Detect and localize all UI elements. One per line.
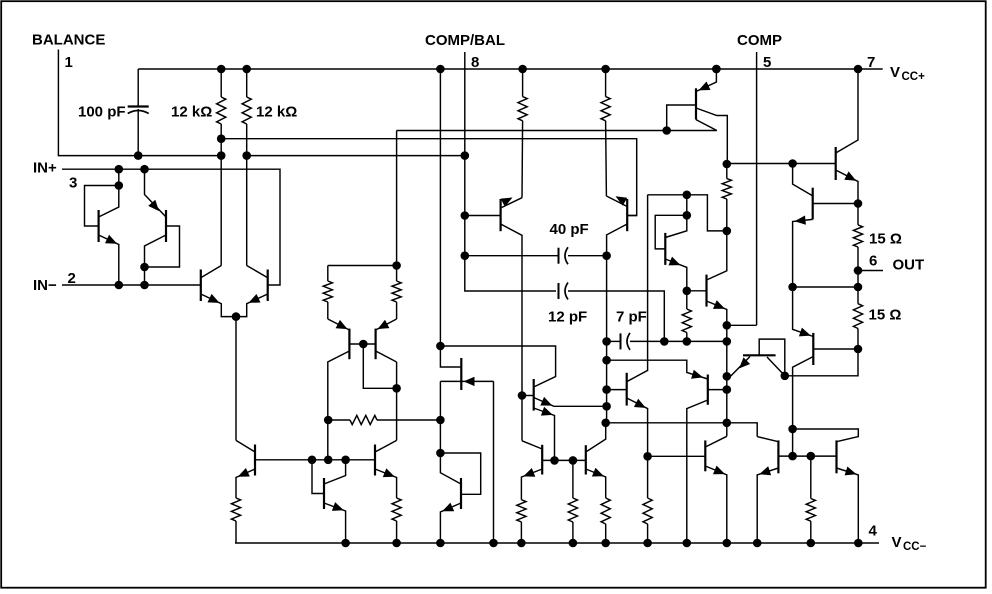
junction pin8 y255 bbox=[461, 251, 470, 260]
junction pin5 tie bbox=[723, 321, 732, 330]
resistor R6 (Q6m emitter) bbox=[392, 266, 401, 320]
svg-text:3: 3 bbox=[69, 175, 77, 192]
junction base bus 1 bbox=[308, 456, 317, 465]
resistor R9 (x=606) bbox=[601, 69, 610, 196]
transistor Q2 bar bbox=[165, 210, 167, 242]
junction Q20 emitter tap bbox=[643, 452, 652, 461]
junction R2 top bbox=[242, 65, 251, 74]
transistor Q18 bar bbox=[541, 445, 543, 475]
transistor Q26 emitter arrow bbox=[713, 466, 725, 475]
label VCC+ bbox=[890, 64, 925, 83]
transistor Q20 emitter bbox=[627, 398, 648, 498]
transistor Q8 bar bbox=[705, 275, 707, 307]
junction Q7 emitter base-line bbox=[683, 287, 692, 296]
junction base bus 2 bbox=[324, 456, 333, 465]
svg-text:CC−: CC− bbox=[903, 541, 927, 553]
resistor R4 (Q12 emitter) bbox=[392, 498, 401, 543]
mirror top wire bbox=[328, 265, 397, 267]
transistor Q18 collector bbox=[522, 441, 542, 449]
junction base bus 3 bbox=[341, 456, 350, 465]
junction bus e2 bbox=[550, 456, 559, 465]
svg-text:7: 7 bbox=[867, 54, 875, 71]
svg-text:OUT: OUT bbox=[893, 257, 925, 274]
junction y360 left bbox=[602, 356, 611, 365]
transistor Q20 bar bbox=[626, 373, 628, 406]
transistor Q8 emitter arrow bbox=[713, 300, 725, 309]
transistor Q14 collector bbox=[501, 224, 522, 441]
wire y346 bbox=[440, 346, 555, 387]
pin 5 wire bbox=[727, 52, 757, 325]
transistor Q15s base bbox=[627, 215, 637, 217]
transistor Q15s emitter arrow bbox=[616, 196, 628, 206]
transistor Q27 base bus bbox=[778, 455, 836, 457]
junction x792 y429 bbox=[788, 425, 797, 434]
junction cap C1 bottom bbox=[134, 151, 143, 160]
svg-text:4: 4 bbox=[869, 523, 878, 540]
pin 8 wire bbox=[465, 52, 556, 291]
transistor Q15s collector bbox=[607, 224, 628, 423]
junction Q17 base-collector bbox=[436, 449, 445, 458]
transistor Q9 collector2 bbox=[696, 120, 717, 131]
transistor Q14 bar bbox=[500, 199, 502, 231]
svg-text:IN−: IN− bbox=[33, 277, 57, 294]
transistor Q12 bar bbox=[374, 445, 376, 476]
wire 40pF left bbox=[465, 255, 559, 257]
junction bus R11 bbox=[569, 456, 578, 465]
junction R9 top bbox=[601, 65, 610, 74]
resistor R10 bbox=[517, 500, 526, 543]
wire y130 (mirror to Q15 base) bbox=[397, 130, 717, 132]
wire y194 loop bbox=[648, 195, 727, 231]
svg-text:IN+: IN+ bbox=[33, 160, 57, 177]
wire Q13 emitter down bbox=[493, 381, 495, 543]
junction diff emitters bbox=[232, 312, 241, 321]
transistor Q5 bar bbox=[348, 329, 350, 360]
capacitor C3 12 pF bbox=[559, 283, 569, 300]
transistor Q23 collector bbox=[793, 164, 813, 196]
transistor Q20 collector bbox=[627, 195, 648, 382]
resistor R7 bbox=[350, 415, 377, 424]
transistor Q9 emitter arrow bbox=[699, 82, 711, 91]
label OUT bbox=[893, 257, 925, 274]
label pin 5 bbox=[763, 54, 771, 71]
label R2 12 k-ohm bbox=[256, 104, 297, 121]
junction R1 node y138 bbox=[217, 134, 226, 143]
capacitor C1 100 pF leads bbox=[137, 69, 139, 156]
junction mirror tie bbox=[392, 384, 401, 393]
svg-text:7 pF: 7 pF bbox=[616, 309, 647, 326]
transistor Q17 emitter arrow bbox=[442, 503, 454, 512]
transistor Q19 collector bbox=[586, 423, 606, 452]
junction Q2 base-collector bbox=[140, 263, 149, 272]
transistor Q4 emitter arrow bbox=[249, 294, 261, 303]
transistor Q23 bar bbox=[812, 188, 814, 220]
junction VCC- rail 6 bbox=[569, 539, 578, 548]
transistor Q12 emitter bbox=[375, 469, 397, 498]
label pin 2 bbox=[68, 270, 76, 287]
label IN+ bbox=[33, 160, 57, 177]
junction e1 bbox=[602, 402, 611, 411]
transistor Q24 emitter bbox=[793, 287, 814, 337]
svg-text:COMP: COMP bbox=[737, 32, 782, 49]
wire y163 bbox=[727, 163, 836, 165]
label COMP/BAL bbox=[425, 32, 505, 49]
transistor Q14 emitter bbox=[501, 198, 522, 208]
label 7 pF bbox=[616, 309, 647, 326]
junction x522 y395 bbox=[518, 391, 527, 400]
transistor Q6m bar bbox=[375, 329, 377, 360]
wire 7pF right bbox=[630, 340, 727, 342]
junction VCC- rail 7 bbox=[601, 539, 610, 548]
junction pin7 bbox=[854, 65, 863, 74]
transistor Q21 collector bbox=[687, 400, 708, 543]
transistor Q3 bar bbox=[200, 270, 202, 302]
label BALANCE bbox=[32, 32, 105, 49]
label 12 pF bbox=[548, 309, 587, 326]
transistor Q26 bar bbox=[704, 440, 706, 471]
transistor Q24 base bbox=[813, 348, 858, 350]
transistor Q23 base bbox=[813, 203, 858, 205]
transistor Q1 base loop bbox=[85, 186, 119, 227]
transistor Q25 emitter arrow bbox=[739, 357, 750, 368]
transistor Q2 base loop bbox=[145, 226, 180, 267]
transistor Q10 emitter arrow bbox=[238, 468, 250, 477]
transistor Q7 base loop bbox=[655, 215, 687, 249]
capacitor C1 100 pF plates bbox=[128, 107, 149, 114]
junction R7 left bbox=[324, 416, 333, 425]
transistor Q4 collector bbox=[247, 266, 268, 278]
transistor Q22 emitter arrow bbox=[844, 171, 856, 180]
svg-text:12 kΩ: 12 kΩ bbox=[171, 104, 212, 121]
transistor Q13 collector bbox=[440, 380, 459, 382]
svg-text:COMP/BAL: COMP/BAL bbox=[425, 32, 505, 49]
svg-text:6: 6 bbox=[869, 253, 877, 270]
junction VCC- rail 13 bbox=[854, 539, 863, 548]
transistor Q6m collector bbox=[376, 351, 397, 362]
junction 7pF line right bbox=[723, 337, 732, 346]
transistor Q1 bar bbox=[97, 210, 99, 242]
junction R15 top bbox=[723, 160, 732, 169]
transistor Q4 bar bbox=[267, 270, 269, 302]
resistor R16 15 ohm bbox=[853, 204, 862, 271]
junction VCC- rail 5 bbox=[517, 539, 526, 548]
transistor Q21 emitter arrow bbox=[691, 370, 703, 379]
transistor Q13 emitter bbox=[459, 380, 494, 382]
transistor Q1 emitter arrow bbox=[105, 235, 117, 244]
junction R1 node y155 bbox=[217, 151, 226, 160]
label 15 ohm lower bbox=[869, 307, 902, 324]
transistor Q2 emitter bbox=[145, 169, 167, 217]
svg-text:CC+: CC+ bbox=[902, 71, 926, 83]
junction mirror top bbox=[392, 261, 401, 270]
transistor Q17 bar bbox=[460, 478, 462, 509]
label 100 pF bbox=[78, 104, 126, 121]
resistor R3 (Q10 emitter) bbox=[231, 498, 240, 543]
junction x440 y346 bbox=[436, 342, 445, 351]
pin 6 OUT stub bbox=[858, 270, 883, 272]
junction Q23 base x858 bbox=[854, 199, 863, 208]
wire 12pF right bbox=[568, 291, 664, 341]
transistor Q16d emitter2 bbox=[534, 408, 555, 460]
junction VCC- rail 11 bbox=[753, 539, 762, 548]
svg-text:5: 5 bbox=[763, 54, 771, 71]
transistor Q26 collector bbox=[705, 436, 727, 447]
junction y423 x727 bbox=[723, 419, 732, 428]
junction VCC- rail 10 bbox=[723, 539, 732, 548]
transistor Q1 collector bbox=[99, 169, 119, 217]
junction VCC- rail 3 bbox=[436, 539, 445, 548]
transistor Q25 base loop bbox=[759, 339, 785, 376]
junction x440 top bbox=[436, 65, 445, 74]
resistor R13 bbox=[643, 498, 652, 543]
svg-text:8: 8 bbox=[471, 54, 479, 71]
junction Q27 base x792 bbox=[788, 452, 797, 461]
VCC+ rail (top) bbox=[138, 68, 883, 70]
transistor Q6m emitter arrow bbox=[378, 320, 390, 329]
label VCC- bbox=[892, 534, 927, 553]
transistor Q11 bar bbox=[323, 478, 325, 509]
junction 7pF line mid bbox=[683, 337, 692, 346]
wire node-A to Q6 base (y=138.7) bbox=[221, 139, 637, 216]
resistor R12 bbox=[601, 498, 610, 543]
transistor Q27 collector bbox=[757, 437, 778, 442]
transistor Q11 emitter bbox=[324, 503, 346, 543]
transistor Q4 emitter bbox=[236, 294, 268, 317]
transistor Q22 bar bbox=[835, 147, 837, 180]
transistor Q21 base bbox=[708, 389, 727, 391]
junction Q9 emitter rail bbox=[712, 65, 721, 74]
transistor Q21 bar bbox=[707, 375, 709, 405]
label pin 1 bbox=[65, 54, 73, 71]
wire 7pF left bbox=[607, 340, 621, 342]
junction VCC- rail 1 bbox=[341, 539, 350, 548]
junction y194 x687 bbox=[683, 191, 692, 200]
wire mirror-top to y130 bbox=[396, 131, 398, 266]
resistor R5 (Q5 emitter) bbox=[323, 266, 332, 320]
junction IN- d1 bbox=[115, 281, 124, 290]
junction Q7 base-collector bbox=[683, 211, 692, 220]
wire x440 from VCC+ bbox=[440, 69, 461, 367]
transistor Q14 base bbox=[465, 215, 501, 217]
pin 3 IN+ wire bbox=[62, 169, 280, 285]
transistor Q25 emitter bbox=[727, 357, 750, 376]
transistor Q5 emitter bbox=[328, 319, 350, 330]
junction R17 bottom bbox=[854, 345, 863, 354]
transistor Q15s bar bbox=[626, 199, 628, 231]
transistor Q10 base bus bbox=[255, 459, 375, 461]
transistor Q19 emitter arrow bbox=[592, 468, 604, 477]
transistor Q1 emitter bbox=[99, 235, 119, 285]
transistor Q27 emitter bbox=[757, 468, 778, 543]
wire y423 bbox=[606, 423, 758, 437]
svg-text:100 pF: 100 pF bbox=[78, 104, 126, 121]
junction VCC- rail 9 bbox=[683, 539, 692, 548]
transistor Q26 base bbox=[648, 455, 706, 457]
transistor Q9 bar bbox=[695, 88, 697, 119]
transistor Q12 emitter arrow bbox=[383, 468, 395, 477]
wire 40pF right bbox=[568, 255, 607, 257]
transistor Q20 base bbox=[607, 389, 627, 391]
transistor Q7 emitter bbox=[665, 259, 687, 309]
transistor Q28 emitter arrow bbox=[845, 467, 857, 476]
capacitor C4 7 pF bbox=[621, 333, 631, 350]
transistor Q3 collector bbox=[201, 266, 222, 278]
transistor Q10 collector bbox=[236, 440, 255, 452]
transistor Q24 collector bbox=[793, 357, 814, 457]
junction R7 right bbox=[436, 416, 445, 425]
transistor Q12 collector bbox=[375, 362, 397, 452]
transistor Q9 emitter bbox=[696, 69, 716, 92]
transistor Q11 collector bbox=[324, 460, 346, 484]
wire node-B to pin8 (y=155.6) bbox=[247, 155, 465, 157]
transistor Q16d emitter1 arrow bbox=[540, 397, 552, 406]
svg-text:V: V bbox=[892, 534, 902, 551]
wire R7 right bbox=[377, 419, 440, 421]
resistor R17 15 ohm bbox=[853, 271, 862, 350]
svg-text:1: 1 bbox=[65, 54, 73, 71]
svg-text:12 kΩ: 12 kΩ bbox=[256, 104, 297, 121]
junction 40pF right bbox=[602, 251, 611, 260]
junction Q21 base right bbox=[723, 385, 732, 394]
wire Q13 collector down bbox=[439, 381, 441, 453]
transistor Q8 collector bbox=[707, 199, 727, 280]
junction y375 x784 bbox=[781, 372, 790, 381]
junction Q9 base y130 bbox=[662, 126, 671, 135]
svg-text:12 pF: 12 pF bbox=[548, 309, 587, 326]
label pin 7 bbox=[867, 54, 875, 71]
pin 2 IN- wire bbox=[62, 284, 201, 286]
transistor Q7 collector bbox=[665, 195, 687, 238]
junction IN+ d1 bbox=[115, 165, 124, 174]
label pin 4 bbox=[869, 523, 878, 540]
junction OUT right bbox=[854, 283, 863, 292]
junction Q1 base-collector bbox=[115, 181, 124, 190]
transistor Q2 collector bbox=[145, 235, 167, 285]
junction R1 top bbox=[217, 65, 226, 74]
junction y423 left bbox=[601, 419, 610, 428]
transistor Q24 emitter arrow bbox=[799, 328, 811, 337]
transistor Q18 emitter arrow bbox=[523, 468, 535, 477]
capacitor C2 40 pF bbox=[559, 247, 569, 264]
junction rail x716 dup bbox=[712, 65, 721, 74]
resistor R18 bbox=[806, 456, 815, 543]
transistor Q16d bar bbox=[533, 379, 535, 411]
wire y360 bbox=[607, 360, 708, 379]
transistor Q18 base bus bbox=[542, 459, 586, 461]
transistor Q10 emitter bbox=[236, 469, 255, 498]
wire Q28 collector link bbox=[793, 429, 859, 442]
mirror base tie bbox=[363, 344, 396, 388]
transistor Q19 emitter bbox=[586, 469, 606, 498]
transistor Q5 collector bbox=[328, 351, 350, 460]
junction R15 bottom bbox=[723, 227, 732, 236]
wire R7 left bbox=[328, 419, 350, 421]
mirror base wire bbox=[349, 343, 375, 345]
transistor Q17 emitter bbox=[440, 503, 461, 543]
junction VCC- rail 4 bbox=[489, 539, 498, 548]
transistor Q28 bar bbox=[835, 440, 837, 473]
label 15 ohm upper bbox=[869, 231, 902, 248]
transistor Q26 emitter bbox=[705, 466, 727, 543]
label COMP bbox=[737, 32, 782, 49]
label R1 12 k-ohm bbox=[171, 104, 212, 121]
label 40 pF bbox=[550, 221, 589, 238]
transistor Q27 emitter arrow bbox=[759, 466, 771, 475]
junction Q25 emitter x727 bbox=[723, 372, 732, 381]
pin 1 BALANCE lead bbox=[58, 50, 221, 156]
transistor Q28 emitter bbox=[837, 468, 859, 543]
transistor Q3 emitter bbox=[201, 294, 236, 317]
wire diff tail bbox=[235, 317, 237, 441]
transistor Q3 emitter arrow bbox=[208, 294, 220, 303]
junction Q27 base x810 bbox=[807, 452, 816, 461]
label pin 8 bbox=[471, 54, 479, 71]
transistor Q16d emitter2 arrow bbox=[541, 407, 553, 416]
transistor Q15s emitter bbox=[606, 196, 627, 207]
transistor Q14 emitter arrow bbox=[501, 198, 513, 207]
transistor Q25 collector bbox=[767, 357, 785, 376]
transistor Q8 emitter bbox=[707, 301, 727, 436]
transistor Q6m emitter bbox=[376, 319, 397, 330]
junction y163 x792 bbox=[788, 159, 797, 168]
transistor Q16d emitter1 bbox=[534, 398, 607, 407]
junction mirror base bbox=[359, 340, 368, 349]
transistor Q9 base bbox=[667, 105, 696, 131]
transistor Q7 emitter arrow bbox=[669, 257, 681, 266]
svg-text:V: V bbox=[890, 64, 900, 81]
transistor Q16d base bbox=[522, 395, 534, 397]
transistor Q22 emitter bbox=[836, 170, 858, 204]
label IN- bbox=[33, 277, 57, 294]
svg-text:2: 2 bbox=[68, 270, 76, 287]
transistor Q11 base loop bbox=[312, 460, 324, 494]
junction R2 node y155 bbox=[242, 151, 251, 160]
transistor Q17 collector bbox=[440, 453, 461, 484]
transistor Q5 emitter arrow bbox=[336, 320, 348, 329]
transistor Q9 collector1 bbox=[696, 108, 727, 164]
transistor Q13 bar bbox=[460, 358, 462, 390]
transistor Q2 emitter arrow bbox=[148, 200, 159, 211]
junction R8 top bbox=[518, 65, 527, 74]
transistor Q17 base loop bbox=[440, 453, 480, 494]
label pin 6 bbox=[869, 253, 877, 270]
resistor R1 12 k-ohm bbox=[217, 69, 226, 266]
svg-text:15 Ω: 15 Ω bbox=[869, 307, 902, 324]
transistor Q23 emitter arrow bbox=[795, 216, 806, 225]
resistor R11 bbox=[568, 460, 577, 543]
VCC- rail (bottom) bbox=[235, 542, 879, 544]
transistor Q23 emitter bbox=[793, 219, 813, 287]
transistor Q19 bar bbox=[585, 445, 587, 474]
svg-text:BALANCE: BALANCE bbox=[32, 32, 105, 49]
junction VCC- rail 8 bbox=[643, 539, 652, 548]
resistor R15 bbox=[722, 164, 731, 199]
junction pin6 bbox=[854, 266, 863, 275]
transistor Q7 bar bbox=[664, 233, 666, 265]
junction VCC- rail 2 bbox=[392, 539, 401, 548]
svg-text:15 Ω: 15 Ω bbox=[869, 231, 902, 248]
transistor Q10 bar bbox=[254, 445, 256, 476]
junction IN- d2 bbox=[140, 281, 149, 290]
resistor R2 12 k-ohm bbox=[242, 69, 251, 266]
transistor Q18 emitter bbox=[521, 469, 542, 500]
transistor Q24 bar bbox=[812, 333, 814, 365]
junction OUT left bbox=[788, 283, 797, 292]
junction wire-B at pin8 bbox=[461, 151, 470, 160]
junction pin8 y215 bbox=[461, 211, 470, 220]
transistor Q22 collector bbox=[836, 69, 858, 153]
transistor Q8 base bbox=[687, 290, 707, 292]
